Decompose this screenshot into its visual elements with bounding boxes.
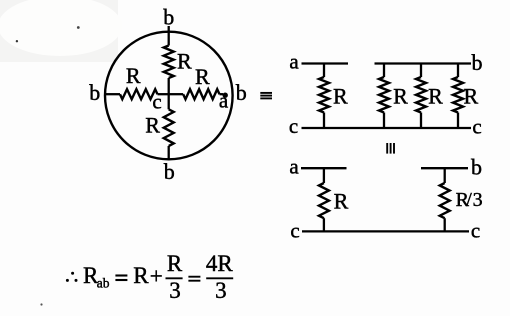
svg-text:R: R [333, 83, 348, 108]
svg-text:c: c [471, 219, 480, 243]
svg-text:b: b [164, 159, 175, 184]
svg-text:b: b [89, 80, 100, 105]
svg-text:R: R [167, 251, 183, 276]
svg-text:a: a [289, 50, 299, 74]
svg-text:/: / [466, 189, 472, 211]
svg-text:c: c [152, 90, 161, 114]
svg-text:ab: ab [97, 276, 110, 291]
svg-text:R: R [428, 84, 443, 109]
svg-text:c: c [472, 115, 481, 139]
svg-text:b: b [471, 155, 482, 180]
svg-text:R: R [126, 63, 141, 88]
svg-text:c: c [289, 114, 298, 138]
svg-text:b: b [163, 4, 174, 29]
svg-text:R: R [463, 84, 478, 109]
svg-text:b: b [472, 50, 483, 75]
svg-text:a: a [219, 89, 229, 113]
svg-text:3: 3 [473, 189, 483, 211]
svg-text:3: 3 [215, 278, 227, 303]
svg-text:b: b [236, 80, 247, 105]
svg-text:R: R [334, 189, 349, 214]
svg-text:R: R [133, 263, 149, 288]
svg-text:a: a [289, 155, 299, 179]
svg-text:+: + [150, 264, 163, 289]
svg-text:R: R [177, 48, 192, 73]
svg-text:R: R [393, 84, 408, 109]
svg-text:3: 3 [169, 278, 181, 303]
svg-text:c: c [290, 219, 299, 243]
svg-text:4R: 4R [206, 251, 234, 276]
svg-text:R: R [195, 64, 210, 89]
svg-text:R: R [145, 113, 160, 138]
